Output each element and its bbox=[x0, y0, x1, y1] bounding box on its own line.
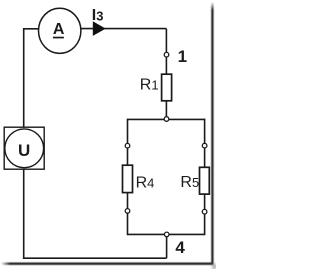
wire left rail vertical bbox=[23, 28, 25, 258]
wire parallel-box right branch bbox=[204, 119, 206, 236]
svg-text:I3: I3 bbox=[92, 7, 104, 24]
wire riser from bottom rail to node 4 bbox=[166, 234, 168, 258]
svg-text:U: U bbox=[18, 141, 30, 160]
node top of R5 branch bbox=[202, 143, 207, 148]
node 4 bbox=[164, 232, 169, 237]
node junction below R1 bbox=[164, 117, 169, 122]
wire top-left from ammeter to left rail bbox=[24, 28, 59, 30]
ammeter A bbox=[39, 8, 81, 53]
voltage source U bbox=[4, 127, 44, 169]
resistor R5 bbox=[200, 167, 210, 194]
svg-text:R1: R1 bbox=[140, 77, 159, 94]
svg-text:1: 1 bbox=[178, 47, 187, 66]
node 1 bbox=[164, 52, 169, 57]
wire parallel-box bottom bbox=[128, 233, 205, 235]
resistor R4 bbox=[123, 165, 133, 192]
wire top from ammeter through arrow to right corner bbox=[60, 28, 166, 30]
wire bottom rail horizontal bbox=[23, 257, 167, 259]
svg-text:A: A bbox=[53, 21, 65, 38]
node top of R4 branch bbox=[125, 143, 130, 148]
wire parallel-box top bbox=[128, 118, 205, 120]
svg-text:4: 4 bbox=[175, 238, 185, 257]
current arrow I3 bbox=[93, 21, 106, 36]
svg-text:R5: R5 bbox=[180, 174, 199, 191]
node bottom of R4 branch bbox=[125, 209, 130, 214]
svg-text:R4: R4 bbox=[136, 175, 155, 192]
wire right branch down through node 1 and R1 bbox=[165, 29, 167, 120]
resistor R1 bbox=[162, 74, 172, 101]
wire parallel-box left branch bbox=[127, 119, 129, 236]
node bottom of R5 branch bbox=[202, 209, 207, 214]
